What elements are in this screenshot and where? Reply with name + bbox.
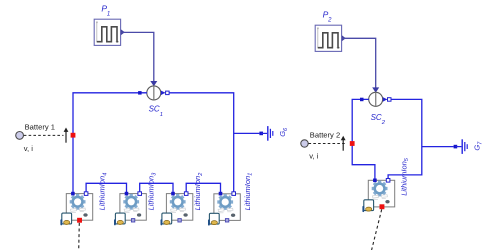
- pulse source P1: [94, 19, 125, 45]
- negative pin of LithiumIon2: [184, 192, 188, 196]
- positive pin of LithiumIon4: [71, 192, 75, 196]
- cell LithiumIon2: [161, 194, 193, 226]
- svg-text:1: 1: [107, 12, 110, 18]
- negative pin of LithiumIon1: [232, 192, 236, 196]
- label LithiumIon1: [243, 173, 254, 211]
- signal current source SC2: [364, 92, 388, 106]
- svg-text:v, i: v, i: [309, 151, 318, 160]
- heat port pin of LithiumIon2: [178, 219, 181, 222]
- label G7: [473, 141, 484, 151]
- dashed heat wire from LithiumIon4: [78, 223, 81, 250]
- cell LithiumIon4: [60, 194, 92, 226]
- pin square at ground G7: [454, 145, 458, 149]
- positive pin of LithiumIon3: [125, 192, 129, 196]
- arrowhead into SC2: [372, 87, 379, 92]
- negative pin of LithiumIon3: [138, 192, 142, 196]
- signal current source SC1: [142, 86, 166, 100]
- heat port pin of LithiumIon3: [131, 219, 134, 222]
- wire SC2 left pin down to cell positive pin: [352, 99, 375, 179]
- battery 2 sensor arrow: [341, 136, 346, 151]
- negative pin of LithiumIon5: [386, 179, 390, 183]
- current direction arrow of SC1: [161, 91, 165, 96]
- red measurement square on left wire: [71, 133, 76, 138]
- label SC1: [149, 104, 163, 117]
- battery 2 dashed sensor wire: [309, 143, 347, 145]
- wire to ground G7: [422, 146, 454, 148]
- label P2: [323, 9, 333, 23]
- positive pin of LithiumIon5: [373, 179, 377, 183]
- wire SC1 left pin to node, down left side: [73, 93, 147, 192]
- battery 1 dashed sensor wire: [24, 134, 64, 136]
- signal wire P1 output to SC1: [121, 32, 154, 81]
- label v, i: [309, 151, 318, 160]
- current direction arrow of SC2: [383, 97, 387, 102]
- negative pin square of SC1: [166, 91, 170, 95]
- wire to ground G6: [234, 132, 260, 134]
- pulse source P2: [315, 25, 346, 51]
- svg-text:1: 1: [160, 112, 163, 118]
- svg-text:SC: SC: [371, 113, 382, 122]
- svg-text:SC: SC: [149, 104, 160, 113]
- label P1: [101, 4, 110, 18]
- red measurement square on left wire: [350, 141, 355, 146]
- heat port pin of LithiumIon1: [225, 219, 228, 222]
- label v, i: [24, 144, 33, 153]
- positive pin square of SC2: [360, 98, 364, 102]
- svg-text:LithiumIon1: LithiumIon1: [243, 173, 254, 211]
- ground G7: [455, 139, 467, 154]
- label LithiumIon2: [193, 173, 204, 211]
- wire LithiumIon2 to LithiumIon1: [186, 183, 220, 192]
- positive pin of LithiumIon1: [219, 192, 223, 196]
- wire SC1 right pin to node, down right side: [169, 93, 234, 192]
- battery 1 sensor circle: [16, 132, 24, 140]
- battery 1 sensor arrow: [64, 128, 69, 143]
- wire LithiumIon4 to LithiumIon3: [86, 183, 126, 192]
- cell LithiumIon1: [208, 194, 240, 226]
- cell LithiumIon5: [362, 180, 394, 212]
- label SC2: [371, 113, 386, 126]
- svg-text:v, i: v, i: [24, 144, 33, 153]
- wire LithiumIon3 to LithiumIon2: [140, 183, 173, 192]
- label LithiumIon3: [147, 172, 158, 211]
- positive pin of LithiumIon2: [171, 192, 175, 196]
- heat port pin of LithiumIon5: [380, 204, 385, 209]
- signal wire P2 output to SC2: [342, 38, 376, 88]
- label LithiumIon5: [399, 157, 410, 196]
- ground G6: [261, 126, 273, 141]
- svg-text:G7: G7: [473, 141, 484, 151]
- wire SC2 right pin down to cell negative pin: [388, 99, 422, 179]
- svg-text:Battery 2: Battery 2: [310, 131, 340, 140]
- label G6: [278, 127, 289, 137]
- svg-text:2: 2: [381, 120, 386, 126]
- svg-text:LithiumIon3: LithiumIon3: [147, 172, 158, 211]
- negative pin of LithiumIon4: [84, 192, 88, 196]
- dashed heat wire from LithiumIon5: [372, 209, 382, 250]
- battery 2 sensor circle: [301, 140, 308, 147]
- svg-text:2: 2: [327, 17, 332, 23]
- svg-text:LithiumIon4: LithiumIon4: [98, 173, 109, 211]
- svg-text:Battery 1: Battery 1: [25, 122, 55, 131]
- cell LithiumIon3: [114, 194, 146, 226]
- svg-text:LithiumIon5: LithiumIon5: [399, 157, 410, 196]
- positive pin square of SC1: [138, 91, 142, 95]
- label Battery 2: [310, 131, 340, 140]
- svg-text:G6: G6: [278, 127, 289, 137]
- heat port pin of LithiumIon4: [77, 218, 82, 223]
- arrowhead into SC1: [150, 81, 157, 86]
- label LithiumIon4: [98, 173, 109, 211]
- pin square at ground G6: [259, 132, 263, 136]
- svg-text:LithiumIon2: LithiumIon2: [193, 173, 204, 211]
- label Battery 1: [25, 122, 55, 131]
- negative pin square of SC2: [388, 98, 392, 102]
